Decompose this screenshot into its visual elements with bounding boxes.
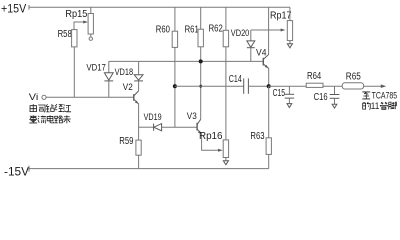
transistor V3 — [197, 119, 202, 134]
wire R64 to R65 — [323, 85, 342, 87]
ground arrow under Rp17 — [287, 44, 292, 48]
capacitor C16 — [330, 86, 340, 104]
+15V rail start tick — [28, 5, 30, 10]
的 — [363, 102, 371, 109]
wire R58 to Vi line — [73, 47, 75, 97]
svg-text:R59: R59 — [119, 136, 134, 147]
过 — [63, 104, 71, 111]
流 — [38, 116, 46, 123]
diode VD18 — [134, 61, 143, 91]
svg-text:R60: R60 — [156, 24, 171, 35]
capacitor C15 — [285, 86, 294, 103]
note: to TCA785 — [362, 91, 397, 101]
diode VD20 — [247, 30, 255, 61]
由 — [30, 104, 36, 111]
svg-text:R58: R58 — [58, 29, 73, 40]
resistor R58 — [72, 30, 77, 47]
路 — [55, 116, 63, 123]
svg-text:R62: R62 — [209, 23, 224, 34]
svg-text:R64: R64 — [307, 71, 322, 82]
potentiometer Rp17 — [287, 7, 292, 44]
output rail wire (node to R64) — [269, 85, 307, 87]
svg-text:V4: V4 — [256, 48, 267, 59]
Vi input terminal — [42, 95, 46, 99]
Rp15 wiper arrow wire — [74, 21, 88, 30]
wire Vi to V2 base — [46, 96, 134, 98]
note: pin 11 — [363, 101, 397, 111]
svg-text:VD18: VD18 — [115, 67, 134, 77]
wire VD20 node to Rp17 wiper arrow — [251, 29, 286, 32]
至 — [362, 92, 370, 99]
note line 1: from driller — [30, 104, 71, 112]
resistor R65 — [342, 83, 363, 89]
capacitor C14 — [244, 78, 269, 93]
wire V4 collector to +15V rail — [268, 7, 270, 55]
svg-text:VD19: VD19 — [144, 112, 162, 123]
wire output node down to R63 — [268, 86, 270, 138]
svg-text:V3: V3 — [187, 111, 197, 122]
钻 — [46, 104, 54, 112]
junction dot output node — [267, 84, 271, 88]
来 — [63, 115, 71, 123]
diode VD17 — [104, 61, 113, 97]
resistor R60 — [172, 7, 177, 47]
ground arrow under C15 — [287, 104, 292, 108]
note line 2: rectifier circuit — [29, 115, 70, 123]
经 — [55, 104, 63, 111]
电 — [47, 115, 54, 122]
svg-text:Vi: Vi — [29, 92, 39, 103]
svg-text:C14: C14 — [229, 74, 242, 85]
ground arrow under Rp16 — [223, 161, 228, 165]
junction dot R61/rail A — [199, 59, 203, 63]
wire V3 emitter down and right to Rp16 wiper — [202, 134, 223, 152]
junction dot R61/rail B — [199, 85, 202, 88]
svg-text:VD20: VD20 — [231, 28, 250, 39]
junction dot R60/rail B — [173, 84, 177, 88]
-15V rail start tick — [28, 166, 30, 172]
svg-text:11: 11 — [371, 101, 380, 111]
resistor R61 — [198, 7, 203, 47]
potentiometer Rp15 — [88, 7, 93, 40]
diode VD19 — [139, 124, 198, 131]
svg-text:Rp17: Rp17 — [270, 10, 292, 22]
svg-text:VD17: VD17 — [86, 62, 106, 72]
node rail A wire (VD17 top to V4 base) — [109, 60, 263, 62]
svg-text:-15V: -15V — [4, 166, 29, 178]
wire R62 column down to Rp16 — [225, 47, 227, 140]
司 — [38, 105, 45, 112]
svg-text:C16: C16 — [314, 92, 328, 103]
transistor V2 — [134, 91, 139, 104]
output arrow wire — [364, 84, 387, 88]
整 — [29, 115, 37, 123]
wire R60 column down to V3 base line — [174, 47, 176, 127]
wire R61 column down to V3 collector — [200, 47, 202, 120]
svg-text:+15V: +15V — [1, 3, 26, 15]
wire R63 to -15V rail — [268, 154, 270, 168]
wire V2 emitter down to VD19 node — [138, 104, 140, 141]
-15V rail wire — [29, 168, 269, 170]
svg-text:TCA785: TCA785 — [372, 91, 398, 101]
svg-text:R63: R63 — [250, 131, 265, 142]
svg-text:R61: R61 — [185, 24, 200, 35]
node rail B wire (R60 dot to C14) — [175, 85, 244, 87]
resistor R59 — [136, 140, 141, 155]
svg-text:R65: R65 — [346, 72, 361, 83]
resistor R62 — [223, 7, 228, 47]
wire R59 to -15V rail — [138, 155, 140, 168]
脚 — [388, 102, 396, 109]
svg-text:C15: C15 — [273, 88, 286, 99]
svg-text:V2: V2 — [123, 82, 133, 93]
potentiometer Rp16 — [223, 140, 228, 161]
管 — [380, 102, 388, 109]
+15V rail wire — [29, 6, 290, 8]
svg-text:Rp15: Rp15 — [65, 8, 87, 20]
transistor V4 — [263, 55, 268, 69]
wire V4 emitter down to output node — [268, 68, 270, 86]
ground arrow under C16 — [332, 104, 337, 108]
svg-text:Rp16: Rp16 — [199, 130, 223, 142]
resistor R64 — [306, 83, 323, 87]
resistor R63 — [266, 138, 271, 155]
